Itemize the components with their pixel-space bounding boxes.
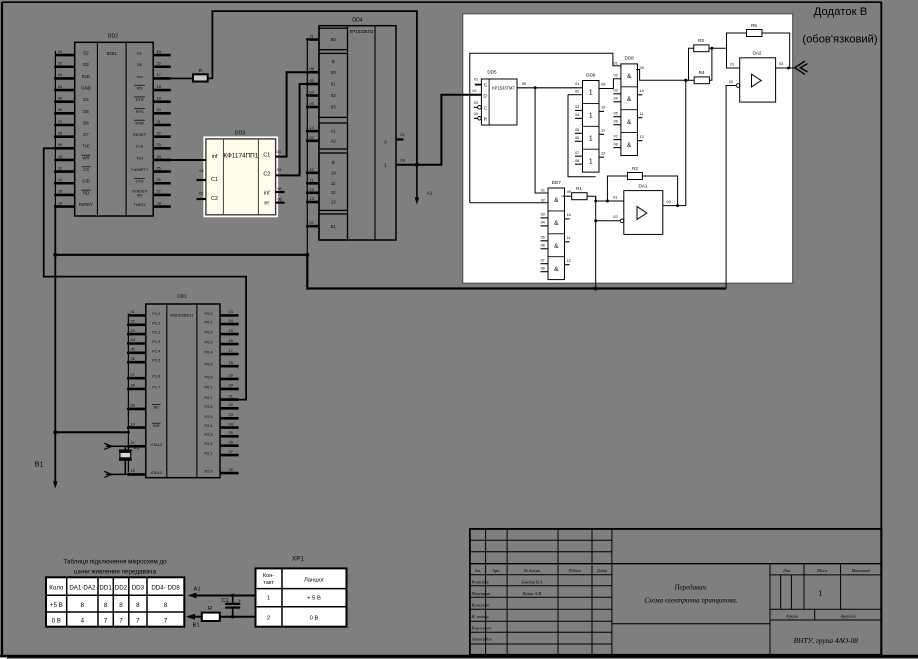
svg-text:RxD: RxD bbox=[82, 74, 90, 79]
svg-text:09: 09 bbox=[601, 83, 605, 87]
svg-text:15: 15 bbox=[157, 49, 161, 54]
wire DD4 bus down and right along bottom y288 bbox=[307, 255, 726, 289]
svg-text:RTS: RTS bbox=[136, 109, 144, 114]
wire DD6 output 09 to DD8 input 02 bbox=[599, 79, 621, 89]
svg-text:P0.7: P0.7 bbox=[204, 384, 212, 389]
svg-text:07: 07 bbox=[613, 134, 617, 138]
svg-text:DA1: DA1 bbox=[639, 184, 648, 189]
svg-text:P1.2: P1.2 bbox=[152, 330, 160, 335]
svg-text:R: R bbox=[208, 606, 212, 612]
svg-text:09: 09 bbox=[401, 158, 405, 163]
IC DD2 (8251 USART) body bbox=[75, 34, 154, 217]
wire B1 node to DD1 ladder bus bbox=[55, 431, 128, 433]
svg-text:01: 01 bbox=[58, 49, 62, 54]
node junction DD8-09 / DA1-03 / R3R4 bbox=[684, 79, 687, 82]
svg-text:7: 7 bbox=[104, 618, 108, 625]
svg-text:A2: A2 bbox=[331, 138, 337, 143]
wire R5 right leg down to DA2 output bbox=[762, 33, 790, 68]
svg-text:&: & bbox=[554, 266, 559, 273]
node junction DA1-02 branch bbox=[594, 219, 597, 222]
svg-text:DD4: DD4 bbox=[352, 18, 362, 24]
resistor R bbox=[193, 68, 208, 82]
svg-text:04: 04 bbox=[541, 221, 545, 225]
wire DD2 pin17 Vcc to resistor R bbox=[171, 77, 193, 79]
svg-text:R2: R2 bbox=[632, 166, 638, 171]
svg-text:11: 11 bbox=[567, 236, 571, 240]
svg-text:P1.7: P1.7 bbox=[152, 384, 160, 389]
svg-text:DD2: DD2 bbox=[115, 585, 128, 592]
svg-text:21: 21 bbox=[229, 393, 233, 398]
svg-text:CTS: CTS bbox=[136, 179, 144, 184]
svg-text:05: 05 bbox=[541, 236, 545, 240]
svg-text:Ланцюг: Ланцюг bbox=[304, 578, 324, 584]
wire DA2 output 03 to antenna bbox=[776, 67, 796, 69]
wire DD5 Q output 05 to DD6 input 01 bbox=[517, 87, 583, 89]
svg-text:P0.5: P0.5 bbox=[204, 362, 212, 367]
svg-text:C1: C1 bbox=[263, 153, 270, 159]
wire into DD7 gate1 input 02 (from top loop) bbox=[470, 202, 548, 204]
svg-text:02: 02 bbox=[331, 93, 336, 98]
svg-text:06: 06 bbox=[131, 356, 135, 361]
svg-text:C2: C2 bbox=[263, 172, 270, 178]
wire DD2 TxC pin09 left and down to DD1 P2.7 bbox=[44, 148, 246, 399]
svg-text:01: 01 bbox=[730, 62, 734, 66]
DD3 right hanging stubs pins 05 06 bbox=[276, 186, 285, 203]
svg-text:01: 01 bbox=[200, 168, 204, 173]
page title: Додаток В (обовязковий) bbox=[802, 6, 878, 45]
wire DD8 output 09 to R3/R4 node bbox=[636, 70, 686, 81]
svg-text:16: 16 bbox=[157, 61, 161, 66]
svg-text:21: 21 bbox=[157, 119, 161, 124]
svg-text:06: 06 bbox=[575, 136, 579, 140]
svg-text:13: 13 bbox=[58, 189, 62, 194]
svg-text:&: & bbox=[627, 142, 632, 149]
wire R1 to DA1 input node bbox=[587, 196, 624, 201]
svg-text:07: 07 bbox=[541, 259, 545, 263]
svg-text:04: 04 bbox=[474, 112, 478, 116]
svg-text:P1.5: P1.5 bbox=[152, 358, 160, 363]
svg-text:08: 08 bbox=[541, 267, 545, 271]
svg-text:шини живлення передавача: шини живлення передавача bbox=[74, 569, 156, 576]
svg-text:RD: RD bbox=[83, 190, 89, 195]
svg-text:12: 12 bbox=[131, 468, 135, 473]
svg-text:03: 03 bbox=[58, 72, 62, 77]
node junction R3 right bbox=[710, 47, 713, 50]
svg-text:№ докум.: № докум. bbox=[523, 568, 541, 573]
svg-text:18: 18 bbox=[157, 84, 161, 89]
svg-text:25: 25 bbox=[157, 165, 161, 170]
svg-text:10: 10 bbox=[601, 106, 605, 110]
svg-text:07: 07 bbox=[58, 119, 62, 124]
svg-text:КМ1816ВЕ31: КМ1816ВЕ31 bbox=[170, 313, 193, 317]
node junction on 05 wire bbox=[534, 86, 537, 89]
svg-text:D2: D2 bbox=[83, 51, 89, 56]
svg-text:Дата: Дата bbox=[596, 568, 608, 573]
svg-text:(обов'язковий): (обов'язковий) bbox=[802, 33, 878, 45]
svg-text:7: 7 bbox=[164, 618, 168, 625]
svg-text:02: 02 bbox=[575, 90, 579, 94]
gate column DD6 (1 gates) bbox=[575, 72, 605, 172]
svg-text:&: & bbox=[627, 73, 632, 80]
svg-text:ВНТУ, група 4АО-08: ВНТУ, група 4АО-08 bbox=[794, 636, 859, 645]
svg-text:Рецензент: Рецензент bbox=[471, 625, 492, 630]
svg-text:P0.2: P0.2 bbox=[204, 330, 212, 335]
svg-text:22: 22 bbox=[229, 402, 233, 407]
capacitor C1 bbox=[222, 594, 242, 619]
off-page arrow A1 down from DD4 output net bbox=[415, 165, 433, 205]
svg-text:R1: R1 bbox=[576, 186, 582, 191]
svg-text:09: 09 bbox=[58, 142, 62, 147]
vertical node wire x595 down to bottom bus bbox=[595, 196, 597, 288]
svg-text:WR: WR bbox=[83, 155, 90, 160]
svg-text:02: 02 bbox=[58, 61, 62, 66]
svg-text:01: 01 bbox=[575, 82, 579, 86]
node junction DA1-01 branch bbox=[594, 200, 597, 203]
wire DD3 C2 pin04 up to DD4 data input 02 bbox=[276, 84, 308, 175]
svg-text:P0.0: P0.0 bbox=[204, 311, 213, 316]
svg-text:07: 07 bbox=[575, 151, 579, 155]
DD3 hanging input stubs pins 01 02 bbox=[197, 168, 206, 199]
svg-text:Маса: Маса bbox=[816, 568, 828, 573]
wire to DA1 inverting input 02 bbox=[596, 220, 621, 222]
svg-text:1: 1 bbox=[384, 163, 387, 168]
svg-text:Бондар В.А.: Бондар В.А. bbox=[520, 579, 543, 584]
svg-text:R: R bbox=[484, 116, 488, 122]
svg-text:28: 28 bbox=[157, 200, 161, 205]
svg-text:Літ.: Літ. bbox=[782, 568, 792, 573]
DD2 right pin stubs (pins 15-28) bbox=[153, 49, 171, 207]
svg-text:03: 03 bbox=[474, 101, 478, 105]
svg-text:D: D bbox=[332, 160, 335, 165]
svg-text:DD6: DD6 bbox=[586, 72, 596, 77]
node junction bottom bus x595 bbox=[594, 287, 598, 291]
wire DD7 output 09 to R1 bbox=[562, 195, 571, 197]
svg-text:КР1533КП2: КР1533КП2 bbox=[350, 29, 374, 34]
svg-text:&: & bbox=[554, 243, 559, 250]
node junction R2 left on DA1-01 wire bbox=[606, 200, 609, 203]
svg-text:XTAL2: XTAL2 bbox=[150, 442, 162, 447]
svg-text:23: 23 bbox=[157, 142, 161, 147]
svg-text:P2.2: P2.2 bbox=[204, 441, 212, 446]
DD2 left pin ladder (pins 01-14) with bus bbox=[54, 49, 75, 208]
svg-text:P2.7: P2.7 bbox=[204, 395, 212, 400]
svg-text:P2.1: P2.1 bbox=[204, 451, 212, 456]
svg-text:D4: D4 bbox=[83, 97, 89, 102]
svg-text:1: 1 bbox=[819, 588, 823, 597]
title block texts bbox=[471, 568, 872, 645]
svg-text:17: 17 bbox=[157, 72, 161, 77]
off-page arrow B1 bbox=[35, 460, 58, 489]
svg-text:Арк.: Арк. bbox=[491, 568, 500, 573]
svg-text:D1: D1 bbox=[137, 51, 142, 56]
svg-text:P2.4: P2.4 bbox=[204, 423, 213, 428]
node junction R2 right on DA1-03 wire bbox=[676, 204, 679, 207]
svg-text:08: 08 bbox=[613, 142, 617, 146]
svg-text:CS: CS bbox=[83, 167, 89, 172]
wire R3/R4 left bus bbox=[686, 48, 694, 80]
wire 0V rail with resistor R to off-page arrow B1 bbox=[186, 614, 256, 629]
wire DD4 output 1 to DD5 D input bbox=[396, 95, 481, 165]
node junction DD4 output net bbox=[415, 163, 419, 167]
svg-text:CLK: CLK bbox=[136, 144, 144, 149]
svg-text:2: 2 bbox=[267, 615, 270, 621]
svg-text:03: 03 bbox=[779, 62, 783, 66]
svg-text:08: 08 bbox=[131, 383, 135, 388]
svg-text:P2.6: P2.6 bbox=[204, 404, 212, 409]
svg-text:1: 1 bbox=[589, 111, 593, 120]
svg-text:P0.6: P0.6 bbox=[204, 374, 212, 379]
svg-text:8: 8 bbox=[136, 602, 140, 609]
svg-text:P2.3: P2.3 bbox=[204, 432, 212, 437]
node junction R5 right on output bbox=[787, 67, 790, 70]
svg-text:25: 25 bbox=[229, 430, 233, 435]
title block (штамп) bbox=[470, 529, 881, 655]
svg-text:12: 12 bbox=[331, 190, 336, 195]
svg-text:02: 02 bbox=[199, 190, 203, 195]
svg-text:er: er bbox=[264, 200, 269, 206]
svg-text:TxEMPTY: TxEMPTY bbox=[131, 167, 149, 172]
svg-text:1: 1 bbox=[589, 134, 593, 143]
wire connector arrow into XTAL1 bbox=[104, 471, 146, 477]
IC DD4 (КР1533КП2) body bbox=[319, 18, 396, 241]
svg-text:+ 5 В: + 5 В bbox=[307, 596, 321, 602]
svg-text:DTR: DTR bbox=[136, 97, 144, 102]
svg-text:DA1-DA2: DA1-DA2 bbox=[69, 585, 96, 592]
svg-text:08: 08 bbox=[575, 159, 579, 163]
svg-text:BD: BD bbox=[137, 193, 142, 197]
svg-text:C2: C2 bbox=[211, 196, 218, 202]
svg-text:+5 В: +5 В bbox=[50, 602, 63, 609]
svg-text:02: 02 bbox=[541, 198, 545, 202]
svg-text:7: 7 bbox=[119, 618, 123, 625]
svg-text:&: & bbox=[554, 197, 559, 204]
IC DD1 (КМ1816ВЕ31) body bbox=[146, 294, 220, 478]
svg-text:Масштаб: Масштаб bbox=[851, 568, 871, 573]
svg-text:P0.1: P0.1 bbox=[204, 320, 212, 325]
svg-text:WR: WR bbox=[153, 423, 160, 428]
svg-text:inf: inf bbox=[264, 190, 270, 196]
resistor R1 bbox=[572, 186, 587, 200]
svg-text:17: 17 bbox=[229, 348, 233, 353]
svg-text:P2.5: P2.5 bbox=[204, 414, 212, 419]
node junction at 55,255 bbox=[53, 253, 57, 257]
power supply connection table bbox=[46, 558, 184, 627]
svg-text:TxD: TxD bbox=[136, 155, 143, 160]
connector XP1 table bbox=[256, 556, 347, 627]
svg-text:03: 03 bbox=[331, 105, 336, 110]
svg-text:С1: С1 bbox=[222, 598, 229, 604]
svg-text:04: 04 bbox=[613, 97, 617, 101]
wire DA1 output 03 up to R3/R4 node bbox=[663, 80, 686, 205]
svg-text:06: 06 bbox=[310, 66, 314, 71]
resistor R2 feedback bbox=[627, 166, 642, 180]
crystal BQ bbox=[119, 445, 140, 474]
DD4 output 0 hanging stub pin 01 bbox=[396, 132, 405, 140]
svg-text:Зм.: Зм. bbox=[475, 568, 481, 573]
svg-text:06: 06 bbox=[613, 120, 617, 124]
svg-text:DA2: DA2 bbox=[753, 50, 762, 55]
svg-text:03: 03 bbox=[276, 149, 280, 154]
svg-text:02: 02 bbox=[310, 135, 314, 140]
svg-text:C: C bbox=[484, 105, 488, 111]
svg-text:04: 04 bbox=[575, 113, 579, 117]
svg-text:01: 01 bbox=[131, 309, 135, 314]
svg-text:0: 0 bbox=[384, 139, 387, 144]
svg-text:08: 08 bbox=[58, 130, 62, 135]
pin labels DD8 gate1 inputs bbox=[613, 61, 617, 77]
svg-text:13: 13 bbox=[229, 309, 233, 314]
svg-text:D6: D6 bbox=[83, 120, 89, 125]
svg-text:09: 09 bbox=[640, 66, 644, 70]
svg-text:P1.0: P1.0 bbox=[152, 311, 161, 316]
svg-text:0 В: 0 В bbox=[52, 618, 61, 625]
svg-text:Додаток В: Додаток В bbox=[814, 6, 868, 18]
pin labels DD7 gate1 inputs bbox=[541, 189, 545, 203]
svg-text:Кон-: Кон- bbox=[263, 573, 274, 579]
svg-text:КФ1174ПП1: КФ1174ПП1 bbox=[223, 153, 258, 160]
svg-text:D7: D7 bbox=[83, 132, 89, 137]
svg-text:BQ: BQ bbox=[133, 445, 140, 450]
svg-text:8: 8 bbox=[81, 602, 85, 609]
svg-text:Аркушів: Аркушів bbox=[839, 613, 855, 618]
svg-text:10: 10 bbox=[331, 170, 336, 175]
svg-text:1: 1 bbox=[589, 156, 593, 165]
svg-text:01: 01 bbox=[541, 189, 545, 193]
op-amp DA2 bbox=[729, 50, 783, 102]
svg-text:P1.6: P1.6 bbox=[152, 374, 160, 379]
IC DD5 (КР1533ТМ7 D-trigger) bbox=[472, 70, 517, 126]
svg-text:&: & bbox=[627, 96, 632, 103]
svg-text:A1: A1 bbox=[331, 129, 337, 134]
svg-text:DD4- DD8: DD4- DD8 bbox=[151, 585, 180, 592]
svg-text:19: 19 bbox=[229, 373, 233, 378]
svg-text:C/D: C/D bbox=[82, 179, 89, 184]
svg-text:RESET: RESET bbox=[133, 132, 147, 137]
wire R2 right leg to DA1 output bbox=[642, 176, 677, 206]
svg-text:КР1533ТМ7: КР1533ТМ7 bbox=[492, 85, 515, 90]
svg-text:TxRDY: TxRDY bbox=[133, 202, 146, 207]
svg-text:Коло: Коло bbox=[49, 585, 64, 592]
svg-text:D3: D3 bbox=[83, 62, 89, 67]
svg-text:01: 01 bbox=[400, 132, 404, 137]
svg-text:02: 02 bbox=[310, 78, 314, 83]
svg-text:13: 13 bbox=[310, 196, 314, 201]
svg-text:02: 02 bbox=[472, 89, 476, 93]
svg-text:4: 4 bbox=[81, 618, 85, 625]
svg-text:8: 8 bbox=[119, 602, 123, 609]
svg-text:26: 26 bbox=[157, 177, 161, 182]
node junction B1 wire at DD1 bus bbox=[127, 431, 130, 434]
resistor R3 bbox=[694, 38, 709, 52]
gate column DD8 (& gates) bbox=[613, 56, 643, 156]
svg-text:09: 09 bbox=[567, 190, 571, 194]
svg-text:12: 12 bbox=[310, 187, 314, 192]
svg-text:8: 8 bbox=[164, 602, 168, 609]
svg-text:GND: GND bbox=[81, 85, 90, 90]
svg-text:DD3: DD3 bbox=[132, 585, 145, 592]
svg-text:01: 01 bbox=[331, 82, 336, 87]
svg-text:02: 02 bbox=[613, 215, 617, 219]
svg-text:RxRDY: RxRDY bbox=[79, 202, 93, 207]
svg-text:ХР1: ХР1 bbox=[292, 556, 304, 563]
wire DD3 C1 pin03 up to DD4 data input 06 bbox=[276, 72, 308, 156]
svg-text:03: 03 bbox=[613, 89, 617, 93]
svg-text:P0.4: P0.4 bbox=[204, 350, 213, 355]
svg-text:+: + bbox=[238, 600, 241, 605]
svg-text:05: 05 bbox=[613, 112, 617, 116]
wire resistor R up and across top to DD4 output node bbox=[208, 11, 417, 165]
svg-text:05: 05 bbox=[522, 82, 526, 86]
svg-text:D0: D0 bbox=[137, 62, 143, 67]
svg-text:02: 02 bbox=[131, 319, 135, 324]
svg-text:23: 23 bbox=[229, 412, 233, 417]
svg-text:Н. контр.: Н. контр. bbox=[471, 614, 490, 619]
svg-text:DD1: DD1 bbox=[177, 294, 187, 300]
svg-text:&: & bbox=[627, 119, 632, 126]
svg-text:16: 16 bbox=[229, 338, 233, 343]
svg-text:В1: В1 bbox=[35, 460, 44, 469]
svg-text:Передавач.: Передавач. bbox=[673, 584, 707, 592]
svg-text:D5: D5 bbox=[83, 109, 89, 114]
svg-text:13: 13 bbox=[331, 200, 336, 205]
svg-text:Схема електрична принципова.: Схема електрична принципова. bbox=[644, 597, 737, 605]
svg-text:12: 12 bbox=[58, 177, 62, 182]
svg-text:15: 15 bbox=[229, 328, 233, 333]
node junction at 307,255 bbox=[305, 253, 309, 257]
svg-text:11: 11 bbox=[58, 165, 62, 170]
svg-text:06: 06 bbox=[58, 107, 62, 112]
svg-text:P2.0: P2.0 bbox=[204, 469, 213, 474]
svg-text:8251: 8251 bbox=[107, 51, 118, 56]
svg-text:03: 03 bbox=[131, 328, 135, 333]
svg-text:D: D bbox=[332, 59, 335, 64]
svg-text:Підпис: Підпис bbox=[568, 568, 582, 573]
svg-text:06: 06 bbox=[541, 244, 545, 248]
op-amp DA1 bbox=[613, 184, 670, 235]
svg-text:02: 02 bbox=[729, 80, 733, 84]
DD1 right pin stubs pins 13-28 bbox=[220, 309, 239, 473]
wire DD2 ladder bus down to B1 arrow bbox=[54, 204, 56, 483]
svg-text:05: 05 bbox=[131, 347, 135, 352]
svg-text:7: 7 bbox=[136, 618, 140, 625]
svg-text:27: 27 bbox=[229, 449, 233, 454]
svg-text:DD7: DD7 bbox=[552, 180, 562, 185]
wire DD2 TxD pin24 to DD3 inf input bbox=[171, 159, 206, 161]
svg-text:01: 01 bbox=[613, 195, 617, 199]
svg-text:03: 03 bbox=[575, 105, 579, 109]
svg-text:DSR: DSR bbox=[135, 120, 143, 125]
svg-text:Перевірив: Перевірив bbox=[471, 591, 491, 596]
wire top loop DD7-02 to DD8-01 bbox=[470, 53, 621, 203]
svg-text:P0.3: P0.3 bbox=[204, 340, 212, 345]
svg-text:C1: C1 bbox=[211, 177, 218, 183]
svg-text:DD1: DD1 bbox=[99, 585, 112, 592]
svg-text:DD3: DD3 bbox=[235, 131, 245, 137]
svg-text:E0: E0 bbox=[331, 37, 337, 42]
svg-text:R5: R5 bbox=[751, 23, 757, 28]
svg-text:26: 26 bbox=[229, 439, 233, 444]
wire connector arrow into XTAL2 bbox=[104, 443, 146, 449]
svg-text:1: 1 bbox=[589, 88, 593, 97]
resistor R on 0V rail bbox=[202, 606, 220, 621]
pin labels DD6 gate1 inputs bbox=[575, 82, 579, 94]
wire +5V rail to off-page arrow A1 bbox=[188, 587, 256, 599]
svg-text:&: & bbox=[554, 220, 559, 227]
svg-text:А1: А1 bbox=[193, 587, 200, 593]
svg-text:28: 28 bbox=[229, 467, 233, 472]
svg-text:E1: E1 bbox=[331, 224, 337, 229]
svg-text:27: 27 bbox=[157, 189, 161, 194]
